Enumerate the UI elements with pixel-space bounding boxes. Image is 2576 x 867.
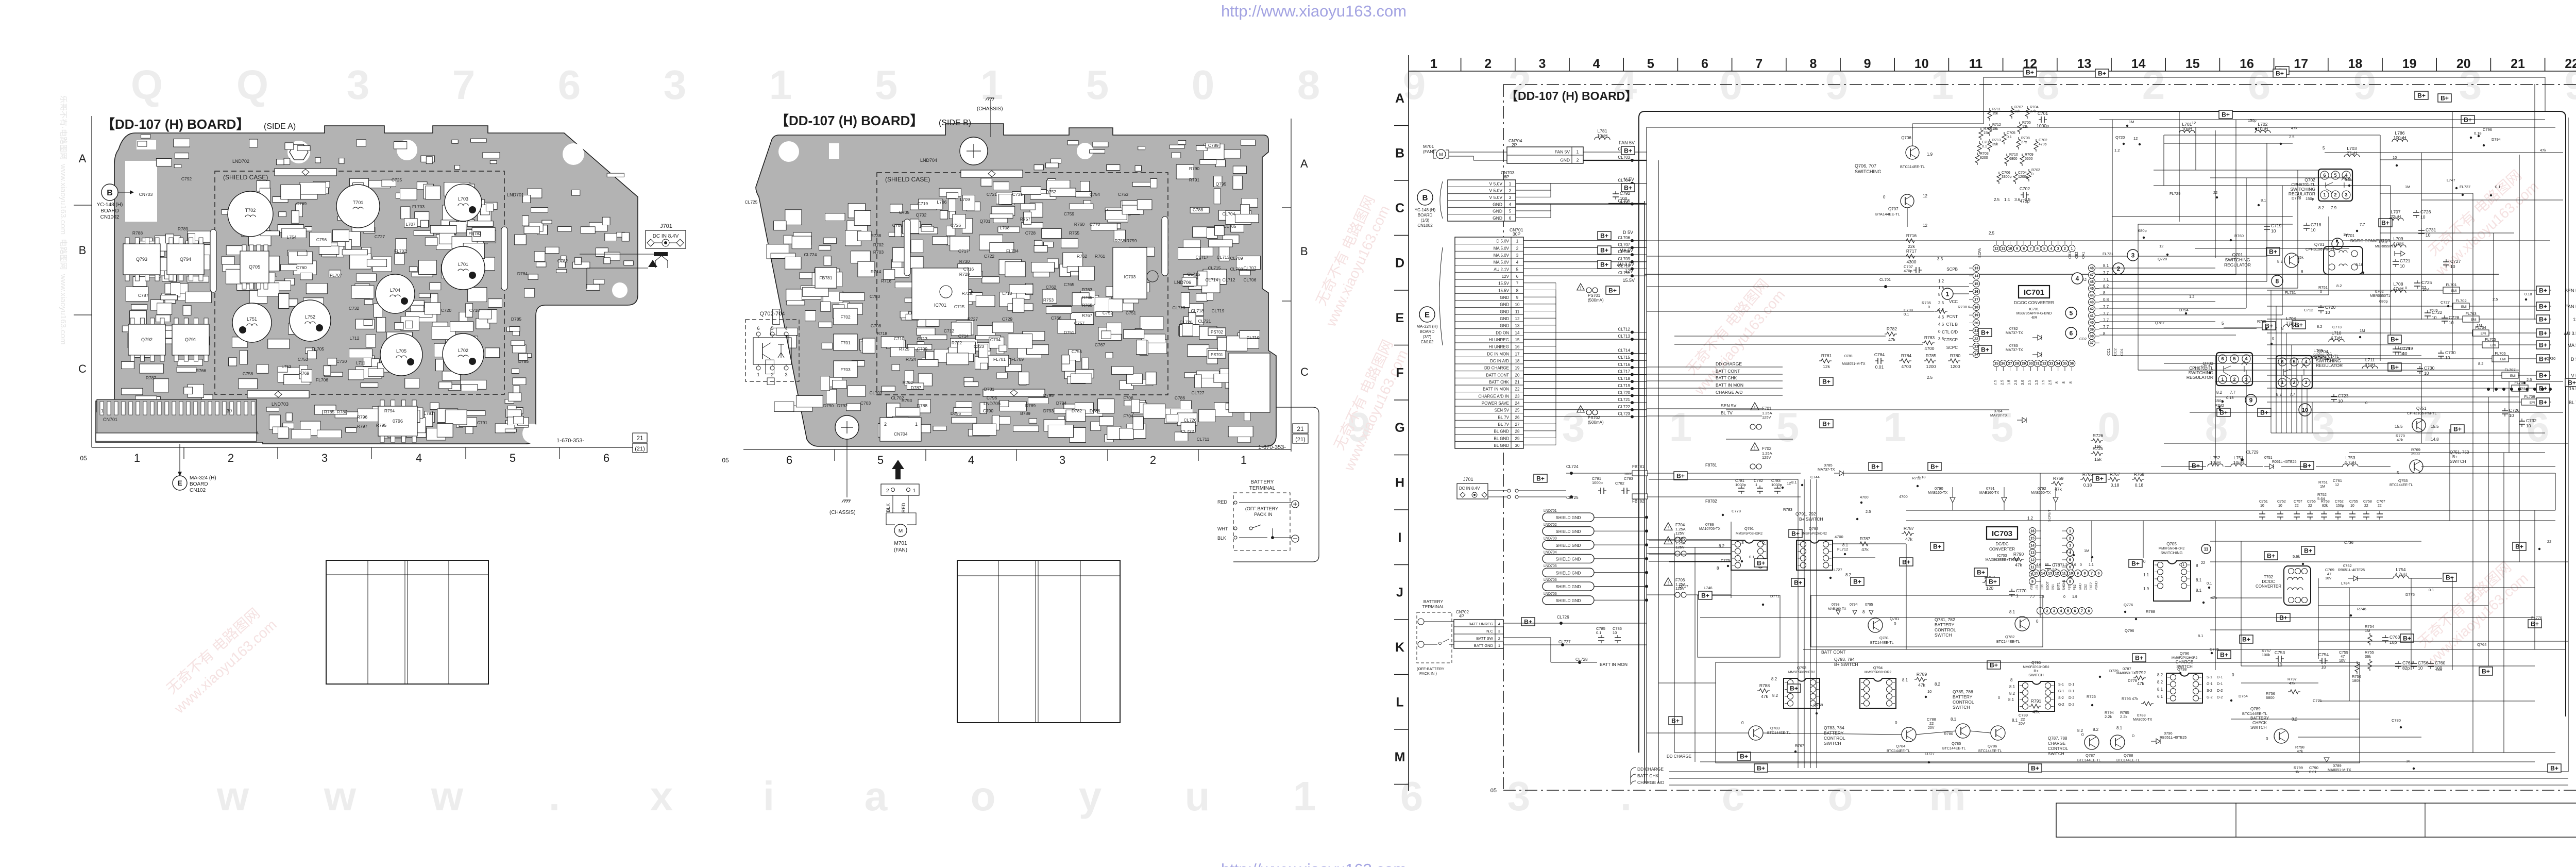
svg-text:SHIELD GND: SHIELD GND	[1556, 543, 1581, 548]
svg-text:19: 19	[2402, 57, 2417, 71]
svg-text:F701: F701	[1762, 406, 1772, 411]
svg-text:L746: L746	[1704, 586, 1713, 590]
svg-text:8.2: 8.2	[2478, 361, 2483, 366]
svg-text:!: !	[1668, 525, 1669, 530]
svg-text:C782: C782	[1615, 481, 1624, 486]
svg-text:R726: R726	[2087, 694, 2096, 699]
svg-text:CL724: CL724	[1566, 464, 1579, 469]
svg-text:1200: 1200	[1951, 364, 1960, 369]
svg-text:0790: 0790	[1935, 486, 1943, 491]
svg-text:HI UNREG: HI UNREG	[1489, 338, 1509, 342]
svg-text:7: 7	[1516, 281, 1519, 286]
svg-text:CL705: CL705	[1223, 224, 1236, 229]
J701 DC IN jack schematic	[1457, 464, 1648, 504]
svg-text:47k: 47k	[1905, 537, 1912, 542]
svg-text:C719: C719	[918, 201, 928, 206]
svg-text:15: 15	[2030, 537, 2035, 541]
svg-text:0751: 0751	[2264, 456, 2273, 460]
svg-text:FL776: FL776	[2531, 615, 2542, 620]
svg-text:D-1: D-1	[2069, 690, 2074, 693]
svg-text:20: 20	[2456, 57, 2471, 71]
svg-text:-ER: -ER	[2031, 316, 2037, 320]
svg-text:25: 25	[1515, 408, 1520, 413]
Q789 battery check switch	[2242, 677, 2351, 774]
svg-text:C701: C701	[2038, 111, 2048, 116]
svg-text:BL 7V: BL 7V	[1498, 422, 1510, 427]
svg-text:C755: C755	[2349, 500, 2358, 504]
Q787 Q788 charge control	[2048, 728, 2140, 762]
svg-text:0.18: 0.18	[2226, 395, 2234, 400]
svg-text:D786: D786	[1090, 408, 1100, 413]
board boundary dash-dot	[1503, 84, 2576, 85]
chassis stub bottom side B	[846, 439, 848, 497]
svg-text:Q706, 707: Q706, 707	[1855, 163, 1876, 169]
svg-text:22: 22	[2547, 539, 2551, 544]
svg-text:9: 9	[1864, 57, 1871, 71]
svg-text:5.6k: 5.6k	[2293, 554, 2300, 559]
svg-text:B+: B+	[1676, 473, 1685, 480]
svg-text:FL705: FL705	[312, 346, 324, 352]
svg-text:C722: C722	[984, 254, 995, 259]
svg-text:MAB160-TX: MAB160-TX	[1928, 491, 1947, 495]
svg-text:BTC144EE-TL: BTC144EE-TL	[2242, 711, 2267, 716]
svg-text:V 5.0V: V 5.0V	[1489, 181, 1502, 186]
svg-text:0.18: 0.18	[2355, 262, 2363, 267]
svg-text:15k: 15k	[2094, 457, 2102, 462]
svg-text:D794: D794	[2179, 308, 2189, 312]
svg-text:MA737-TX: MA737-TX	[1818, 468, 1835, 472]
svg-text:DC IN A/D: DC IN A/D	[1490, 359, 1509, 363]
svg-text:1000p: 1000p	[1771, 482, 1782, 487]
svg-text:B+: B+	[2135, 655, 2143, 662]
svg-text:B+: B+	[2482, 668, 2490, 675]
svg-text:EMI: EMI	[2500, 358, 2506, 361]
svg-text:11: 11	[2062, 572, 2066, 576]
svg-text:150p: 150p	[2248, 118, 2257, 123]
svg-text:0: 0	[1928, 305, 1930, 309]
svg-text:14: 14	[2131, 57, 2146, 71]
svg-text:(FAN): (FAN)	[1423, 149, 1434, 154]
svg-text:(500mA): (500mA)	[1588, 420, 1604, 425]
svg-text:BATT SW: BATT SW	[1476, 636, 1494, 641]
svg-text:Q794: Q794	[1873, 665, 1883, 670]
svg-text:B+: B+	[2026, 69, 2034, 76]
svg-text:4: 4	[2304, 359, 2307, 364]
svg-text:8.1: 8.1	[2116, 726, 2123, 730]
svg-text:G-2: G-2	[2058, 703, 2064, 707]
svg-text:7.9: 7.9	[2331, 206, 2337, 210]
svg-text:4300: 4300	[1907, 259, 1917, 264]
svg-text:R762: R762	[1077, 254, 1088, 259]
svg-text:L717: L717	[2201, 364, 2210, 369]
svg-text:S-1: S-1	[2058, 683, 2064, 687]
svg-text:LND704: LND704	[920, 158, 937, 163]
svg-text:7.7: 7.7	[2230, 390, 2236, 395]
svg-text:16: 16	[2240, 57, 2254, 71]
svg-text:C721: C721	[2400, 258, 2411, 263]
svg-text:7: 7	[1755, 57, 1762, 71]
svg-text:.: .	[1620, 773, 1632, 819]
svg-text:B+: B+	[1600, 247, 1608, 254]
svg-text:45: 45	[2090, 287, 2094, 291]
svg-text:Q786: Q786	[1988, 744, 1997, 748]
svg-text:21: 21	[636, 435, 643, 442]
svg-text:0792: 0792	[2038, 486, 2046, 491]
svg-text:Q707: Q707	[1888, 207, 1899, 211]
svg-text:C727: C727	[375, 234, 385, 239]
Q702-704 detail box	[745, 320, 799, 381]
Q781 Q782 battery control	[1803, 595, 2043, 655]
svg-text:L701: L701	[458, 262, 468, 267]
svg-text:R738: R738	[871, 233, 882, 238]
svg-text:DC IN 8.4V: DC IN 8.4V	[653, 234, 679, 239]
svg-text:C752: C752	[2277, 500, 2286, 504]
svg-text:15k: 15k	[2094, 444, 2102, 449]
svg-text:10uH: 10uH	[1597, 133, 1607, 138]
svg-text:4.7uH: 4.7uH	[2395, 572, 2407, 577]
svg-text:【DD-107 (H) BOARD】: 【DD-107 (H) BOARD】	[775, 113, 923, 128]
svg-text:C703: C703	[1982, 141, 1991, 144]
right edge vertical wires	[2535, 77, 2555, 510]
svg-text:CL722: CL722	[1618, 405, 1630, 409]
svg-text:1M: 1M	[2477, 323, 2482, 328]
T702 DC/DC converter	[2256, 552, 2311, 622]
svg-text:8: 8	[2088, 610, 2090, 613]
svg-text:12: 12	[1923, 194, 1927, 198]
svg-text:L754: L754	[287, 235, 297, 240]
svg-text:0783: 0783	[2009, 343, 2018, 348]
svg-text:R791: R791	[1189, 177, 1200, 182]
svg-text:C704: C704	[990, 337, 1001, 342]
svg-text:1: 1	[2069, 530, 2071, 533]
svg-text:C782: C782	[557, 258, 568, 263]
svg-text:T702: T702	[2264, 575, 2274, 579]
svg-text:5: 5	[2043, 247, 2045, 251]
svg-text:29: 29	[2022, 362, 2026, 366]
svg-text:0.1: 0.1	[2495, 185, 2500, 189]
svg-text:7: 7	[452, 62, 476, 108]
svg-text:1: 1	[1516, 239, 1519, 244]
svg-text:MA8051-M-TX: MA8051-M-TX	[2328, 769, 2351, 772]
svg-text:R768: R768	[1082, 303, 1093, 308]
svg-text:0: 0	[2036, 619, 2039, 624]
svg-text:C731: C731	[1012, 192, 1023, 197]
svg-text:2.5: 2.5	[2028, 380, 2032, 385]
svg-text:CONTROL: CONTROL	[1935, 627, 1956, 632]
svg-text:4: 4	[2060, 610, 2062, 613]
svg-text:C729: C729	[2400, 346, 2411, 351]
svg-text:EXT2: EXT2	[2090, 582, 2093, 590]
component cluster PCB B texture	[766, 140, 1261, 442]
svg-text:30: 30	[2029, 362, 2033, 366]
svg-text:BL 7V: BL 7V	[1498, 415, 1510, 420]
svg-text:LB0: LB0	[2041, 585, 2044, 590]
svg-text:3: 3	[1516, 253, 1519, 258]
svg-text:B+: B+	[2403, 635, 2411, 642]
svg-text:5: 5	[2323, 146, 2325, 151]
ruler right side B	[1291, 119, 1292, 452]
svg-text:0788: 0788	[2137, 713, 2146, 718]
svg-text:36: 36	[2070, 362, 2074, 366]
svg-text:CONTROL: CONTROL	[1824, 736, 1845, 741]
svg-text:CL721: CL721	[1618, 397, 1630, 402]
svg-text:47: 47	[2090, 274, 2094, 277]
svg-text:47k: 47k	[2137, 681, 2144, 686]
svg-text:CL724: CL724	[804, 252, 817, 257]
svg-text:REGULATOR: REGULATOR	[2187, 375, 2213, 380]
F701 F702 F703 fuses side B	[834, 308, 857, 325]
svg-text:6: 6	[603, 452, 609, 464]
svg-text:B+: B+	[1624, 147, 1632, 155]
svg-text:R717: R717	[1906, 248, 1917, 254]
svg-text:4.6: 4.6	[1938, 315, 1944, 320]
svg-text:C744: C744	[1810, 475, 1820, 479]
svg-text:8.1: 8.1	[2196, 578, 2202, 582]
svg-text:1M: 1M	[2405, 185, 2410, 189]
svg-text:C764: C764	[2402, 660, 2413, 665]
svg-text:Q791: Q791	[1744, 526, 1754, 531]
svg-text:LND706: LND706	[1544, 578, 1557, 582]
svg-text:1: 1	[134, 452, 140, 464]
svg-text:BL GND: BL GND	[1494, 429, 1510, 434]
svg-text:C767: C767	[2377, 500, 2385, 504]
svg-text:0.1: 0.1	[1749, 555, 1754, 559]
svg-text:10: 10	[2069, 572, 2073, 576]
svg-text:R780: R780	[337, 409, 348, 414]
svg-text:8.1: 8.1	[2198, 633, 2203, 638]
svg-text:A: A	[1300, 157, 1308, 170]
svg-text:Q781: Q781	[1879, 636, 1889, 640]
svg-text:RED: RED	[1217, 499, 1228, 505]
svg-text:MA 5.0V: MA 5.0V	[1494, 260, 1510, 265]
svg-text:470p: 470p	[1904, 269, 1912, 273]
svg-text:5: 5	[2222, 321, 2224, 326]
svg-text:1: 1	[2323, 192, 2326, 197]
svg-text:0.18: 0.18	[2111, 482, 2120, 488]
svg-text:10: 10	[2338, 398, 2343, 404]
svg-text:17: 17	[2294, 57, 2308, 71]
svg-text:IC703: IC703	[1992, 529, 2012, 538]
svg-text:2.5: 2.5	[1866, 509, 1871, 514]
svg-text:2.5: 2.5	[1994, 197, 2000, 202]
svg-text:BATT CONT: BATT CONT	[1716, 369, 1740, 374]
svg-text:C705: C705	[899, 210, 910, 215]
svg-text:T702: T702	[245, 208, 256, 213]
svg-text:8.1: 8.1	[2066, 549, 2071, 554]
long rails mid	[1645, 274, 2499, 275]
svg-text:GND: GND	[1500, 309, 1509, 314]
svg-text:AU 2.1V: AU 2.1V	[1494, 267, 1509, 272]
svg-text:K: K	[1395, 640, 1404, 655]
svg-text:FL712: FL712	[1837, 547, 1848, 552]
svg-text:B+: B+	[2391, 336, 2399, 343]
svg-text:F: F	[1396, 366, 1403, 380]
svg-text:3: 3	[1507, 773, 1531, 819]
svg-text:C708: C708	[871, 323, 882, 328]
svg-text:0.18: 0.18	[2474, 131, 2482, 136]
svg-text:R789: R789	[1917, 672, 1927, 677]
svg-text:2: 2	[1150, 454, 1156, 466]
svg-text:PACK IN: PACK IN	[1254, 512, 1272, 517]
svg-text:R727: R727	[968, 316, 978, 322]
svg-text:1.5: 1.5	[2042, 380, 2045, 385]
svg-text:27uH: 27uH	[2347, 151, 2357, 156]
svg-text:M: M	[1439, 152, 1443, 157]
svg-text:BTA144EE-TL: BTA144EE-TL	[1875, 212, 1900, 216]
svg-text:20V: 20V	[1928, 726, 1935, 730]
svg-text:9: 9	[2249, 396, 2253, 404]
svg-text:Q706: Q706	[1901, 136, 1911, 140]
svg-text:CHARGE A/D: CHARGE A/D	[1716, 390, 1742, 395]
svg-text:17: 17	[1515, 352, 1520, 356]
svg-text:D790: D790	[823, 403, 834, 408]
slot bars side A	[210, 229, 216, 292]
svg-text:0: 0	[2143, 559, 2146, 564]
svg-text:7.7: 7.7	[2103, 318, 2109, 323]
svg-text:1k: 1k	[2295, 770, 2299, 774]
svg-text:21: 21	[1515, 380, 1520, 385]
svg-text:C796: C796	[2483, 127, 2492, 132]
svg-text:0: 0	[2031, 173, 2033, 176]
svg-text:MA-324 (H): MA-324 (H)	[1416, 324, 1438, 329]
svg-text:F8782: F8782	[1705, 499, 1717, 504]
svg-text:Q793: Q793	[1797, 665, 1806, 670]
svg-text:5: 5	[2070, 309, 2073, 316]
svg-text:7.7: 7.7	[2103, 311, 2109, 316]
PCB A screw holes and cutouts	[287, 141, 310, 163]
svg-text:L727: L727	[1834, 568, 1842, 572]
svg-text:32: 32	[2042, 362, 2046, 366]
svg-text:Q705: Q705	[249, 264, 260, 270]
svg-text:Q788: Q788	[2124, 753, 2133, 758]
svg-text:2: 2	[1577, 157, 1579, 162]
ruler bottom side B	[743, 449, 1291, 450]
svg-text:36k: 36k	[2365, 654, 2371, 659]
svg-text:Q783, 784: Q783, 784	[1824, 725, 1844, 730]
svg-text:8: 8	[2103, 331, 2106, 336]
svg-text:(3/7): (3/7)	[1423, 335, 1432, 339]
svg-text:B+: B+	[1981, 329, 1989, 337]
svg-text:F703: F703	[840, 367, 851, 372]
coil L704	[376, 274, 415, 313]
svg-text:12: 12	[2335, 482, 2339, 487]
svg-text:LND701: LND701	[1544, 509, 1557, 513]
svg-text:R769: R769	[299, 371, 310, 376]
svg-text:125V: 125V	[1762, 415, 1771, 420]
svg-text:BATT IN MON: BATT IN MON	[1483, 387, 1509, 392]
svg-text:9: 9	[2031, 580, 2033, 584]
svg-text:3: 3	[1562, 404, 1585, 450]
PCB side B board outline	[756, 124, 1276, 446]
svg-text:13: 13	[1974, 267, 1978, 271]
svg-text:1.2: 1.2	[2189, 294, 2194, 299]
svg-text:L712: L712	[350, 336, 360, 341]
Q705 switching block	[2143, 542, 2211, 601]
svg-text:N.C: N.C	[1486, 629, 1494, 633]
svg-text:0: 0	[1883, 195, 1886, 199]
svg-text:http://www.xiaoyu163.com: http://www.xiaoyu163.com	[1221, 860, 1406, 867]
svg-text:R785: R785	[324, 409, 335, 414]
svg-text:B+: B+	[2220, 652, 2228, 659]
svg-text:FL729: FL729	[2170, 191, 2180, 196]
svg-text:B+: B+	[1977, 569, 1985, 576]
svg-text:13: 13	[1515, 324, 1520, 328]
svg-text:R781: R781	[1821, 353, 1832, 358]
DD CHARGE / BATT CHK / CHARGE A/D long rails	[1631, 752, 2568, 785]
svg-text:Q776: Q776	[2124, 603, 2133, 607]
svg-text:V 5V: V 5V	[1624, 177, 1634, 182]
svg-text:4: 4	[1516, 260, 1519, 265]
svg-text:GND: GND	[2079, 583, 2082, 590]
svg-text:D788: D788	[917, 403, 928, 408]
svg-text:B+: B+	[2539, 342, 2547, 349]
slot bars side B	[904, 219, 910, 276]
wire mesh bottom right	[1674, 473, 2568, 762]
svg-text:D: D	[1395, 256, 1404, 271]
svg-text:8.1: 8.1	[1951, 717, 1957, 722]
svg-text:12: 12	[1994, 247, 1998, 251]
svg-text:F702: F702	[1762, 446, 1772, 451]
svg-text:C: C	[1300, 365, 1309, 378]
svg-text:SCPB: SCPB	[1946, 267, 1958, 272]
regulator Q702	[2289, 146, 2380, 210]
svg-text:9: 9	[1403, 62, 1426, 108]
svg-text:R728,: R728,	[962, 291, 974, 296]
svg-text:SWITCH: SWITCH	[1824, 741, 1841, 746]
svg-text:10: 10	[2509, 413, 2514, 418]
svg-text:R766: R766	[196, 368, 207, 373]
svg-text:GND: GND	[1500, 295, 1509, 300]
svg-text:D: D	[2132, 735, 2134, 738]
svg-text:R722: R722	[952, 340, 962, 345]
long bottom rails	[1647, 515, 2568, 772]
svg-text:SHDN1: SHDN1	[2063, 579, 2066, 590]
svg-text:41: 41	[2090, 314, 2094, 318]
svg-text:EMI: EMI	[2510, 375, 2516, 378]
svg-text:8.1: 8.1	[2261, 198, 2266, 203]
svg-text:5: 5	[1647, 57, 1654, 71]
svg-text:8.1: 8.1	[2103, 263, 2109, 268]
svg-text:2: 2	[1509, 188, 1512, 193]
svg-text:10: 10	[2449, 320, 2454, 325]
svg-text:MMSF5P02HDR2: MMSF5P02HDR2	[1788, 671, 1815, 674]
svg-text:47: 47	[2327, 572, 2331, 576]
svg-text:Q783: Q783	[1770, 726, 1780, 730]
Q783 Q784 Q785 Q786 transistor row	[1741, 698, 2041, 753]
svg-text:B+: B+	[2539, 303, 2547, 310]
svg-text:0.01: 0.01	[2309, 770, 2317, 774]
frame border lines	[1408, 55, 1409, 791]
svg-text:47k: 47k	[2032, 709, 2040, 714]
svg-text:Q796: Q796	[2125, 628, 2134, 633]
svg-text:0: 0	[1894, 622, 1896, 626]
svg-text:C726: C726	[2420, 209, 2431, 214]
svg-text:B: B	[1422, 193, 1428, 202]
svg-text:C788: C788	[1193, 207, 1204, 212]
svg-text:10: 10	[2271, 228, 2276, 234]
svg-text:4: 4	[2050, 247, 2052, 251]
svg-text:CL715: CL715	[1618, 355, 1630, 360]
svg-text:R724: R724	[906, 357, 917, 362]
svg-text:http://www.xiaoyu163.com: http://www.xiaoyu163.com	[1221, 2, 1406, 20]
svg-text:H: H	[1395, 476, 1404, 490]
svg-text:C783: C783	[1624, 476, 1633, 481]
svg-text:6: 6	[2037, 247, 2039, 251]
svg-text:10: 10	[2321, 664, 2326, 670]
svg-text:DC/DC: DC/DC	[1995, 542, 2009, 546]
svg-text:D727: D727	[1925, 752, 1935, 756]
svg-text:R790: R790	[2013, 552, 2024, 557]
